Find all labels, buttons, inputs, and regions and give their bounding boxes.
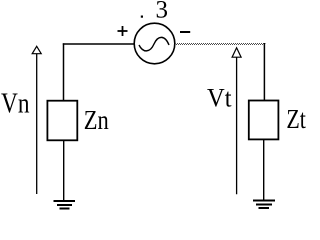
wire: gray dotted from source - terminal to node B xyxy=(175,43,266,45)
source V1 sine wave xyxy=(139,37,169,51)
svg-text:Zn: Zn xyxy=(84,105,109,135)
svg-text:Vn: Vn xyxy=(1,89,30,120)
wire: Zt bottom to ground xyxy=(263,140,265,201)
label Vn xyxy=(1,89,30,120)
arrow Vt (reference arrow, open head) xyxy=(232,48,241,194)
svg-text:Vt: Vt xyxy=(207,83,232,112)
label: - polarity xyxy=(180,31,190,33)
impedance Zn (box) xyxy=(47,101,77,141)
arrow Vn (reference arrow, open head) xyxy=(32,46,41,194)
label: + polarity xyxy=(118,26,128,36)
label: value 3 xyxy=(156,0,169,24)
ground (left) xyxy=(54,201,76,209)
label Zt xyxy=(286,104,306,134)
label: dot before 3 xyxy=(141,16,143,18)
svg-text:3: 3 xyxy=(156,0,169,24)
svg-text:Zt: Zt xyxy=(286,104,306,134)
wire: left vertical from top wire down to Zn top xyxy=(63,43,65,101)
wire: top-left horizontal from node A to source + terminal xyxy=(63,43,134,45)
source V1 (AC source circle) xyxy=(134,23,175,64)
label Zn xyxy=(84,105,109,135)
ground (right) xyxy=(253,201,275,209)
wire: Zn bottom to ground xyxy=(63,140,65,201)
impedance Zt (box) xyxy=(249,101,279,140)
wire: right vertical from node B down to Zt top xyxy=(263,43,265,101)
label Vt xyxy=(207,83,232,112)
